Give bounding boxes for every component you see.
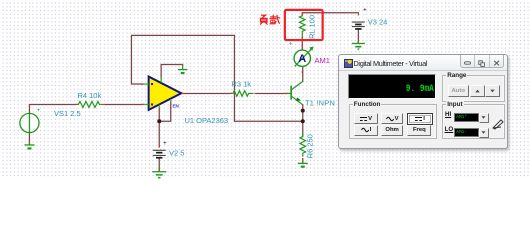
wire op-amp top pin to ground bbox=[161, 65, 183, 78]
wire VS1 bottom to ground bbox=[28, 133, 30, 145]
ground (VS1) bbox=[24, 140, 34, 148]
wire VS1 top to R4 bbox=[29, 104, 75, 113]
Input group bbox=[442, 104, 505, 139]
wire RL top to V3 bbox=[302, 13, 358, 15]
wire emitter down to R6 bbox=[302, 105, 304, 136]
ammeter AM1 bbox=[289, 40, 314, 66]
svg-text:RL 100: RL 100 bbox=[308, 15, 317, 39]
ground (V3) bbox=[352, 40, 365, 49]
resistor RL (load) bbox=[299, 13, 305, 39]
svg-text:VS1 2.5: VS1 2.5 bbox=[54, 109, 81, 118]
probe icon bbox=[491, 116, 505, 130]
svg-text:V2 5: V2 5 bbox=[169, 149, 184, 158]
wire ammeter top to RL bbox=[301, 40, 303, 50]
red pin tips bbox=[29, 13, 358, 171]
resistor R6 bbox=[300, 133, 306, 156]
svg-text:R6 250: R6 250 bbox=[306, 134, 315, 158]
wire V2 to ground bbox=[158, 158, 160, 171]
wire R6 to ground bbox=[302, 159, 304, 163]
voltage source VS1 bbox=[20, 113, 39, 132]
dotted grid background is the stage itself; white strip at bottom bbox=[0, 178, 530, 191]
resistor R4 bbox=[75, 101, 102, 107]
wire V3 to ground bbox=[357, 29, 359, 43]
wire op-amp EN pin down-left bbox=[159, 103, 171, 121]
svg-text:+: + bbox=[289, 40, 293, 47]
wire feedback loop: left vertical, top, right vertical down to emitter line bbox=[131, 35, 302, 121]
ground (R6) bbox=[298, 160, 308, 166]
battery V3 bbox=[352, 22, 365, 29]
ground (op-amp top) bbox=[178, 65, 188, 74]
wire R3 to T1 base bbox=[256, 92, 285, 94]
Range group bbox=[442, 75, 505, 102]
display bbox=[348, 74, 437, 99]
junction (op-amp supply node) bbox=[157, 119, 161, 123]
wire R4 to op-amp IN+ bbox=[105, 103, 142, 105]
junction (emitter pin node) bbox=[301, 109, 305, 113]
svg-text:U1 OPA2363: U1 OPA2363 bbox=[184, 116, 228, 125]
junction (feedback/emitter node) bbox=[301, 119, 305, 123]
transistor T1 bbox=[285, 81, 302, 105]
wire op-amp output to R3 bbox=[181, 92, 229, 94]
op-amp U1 bbox=[141, 77, 181, 110]
svg-text:+: + bbox=[363, 7, 367, 14]
DMM window bbox=[338, 54, 508, 149]
resistor R3 bbox=[229, 91, 253, 97]
red annotation rectangle (load) bbox=[285, 10, 323, 40]
Function group bbox=[349, 104, 438, 139]
ground (V2) bbox=[152, 167, 166, 178]
svg-text:R4 10k: R4 10k bbox=[77, 91, 101, 100]
wire collector to ammeter bbox=[302, 67, 304, 82]
svg-text:AM1: AM1 bbox=[314, 56, 329, 65]
battery V2 bbox=[153, 150, 166, 158]
svg-text:+: + bbox=[163, 140, 167, 147]
svg-text:T1 !NPN: T1 !NPN bbox=[305, 99, 335, 108]
svg-text:V3 24: V3 24 bbox=[368, 18, 388, 27]
svg-text:+: + bbox=[36, 107, 40, 114]
label 负载 bbox=[260, 15, 280, 25]
wire op-amp V- pin down to V2 bbox=[158, 109, 160, 147]
svg-text:A: A bbox=[298, 53, 306, 65]
svg-text:EN: EN bbox=[172, 104, 179, 109]
svg-text:R3 1k: R3 1k bbox=[231, 80, 251, 89]
